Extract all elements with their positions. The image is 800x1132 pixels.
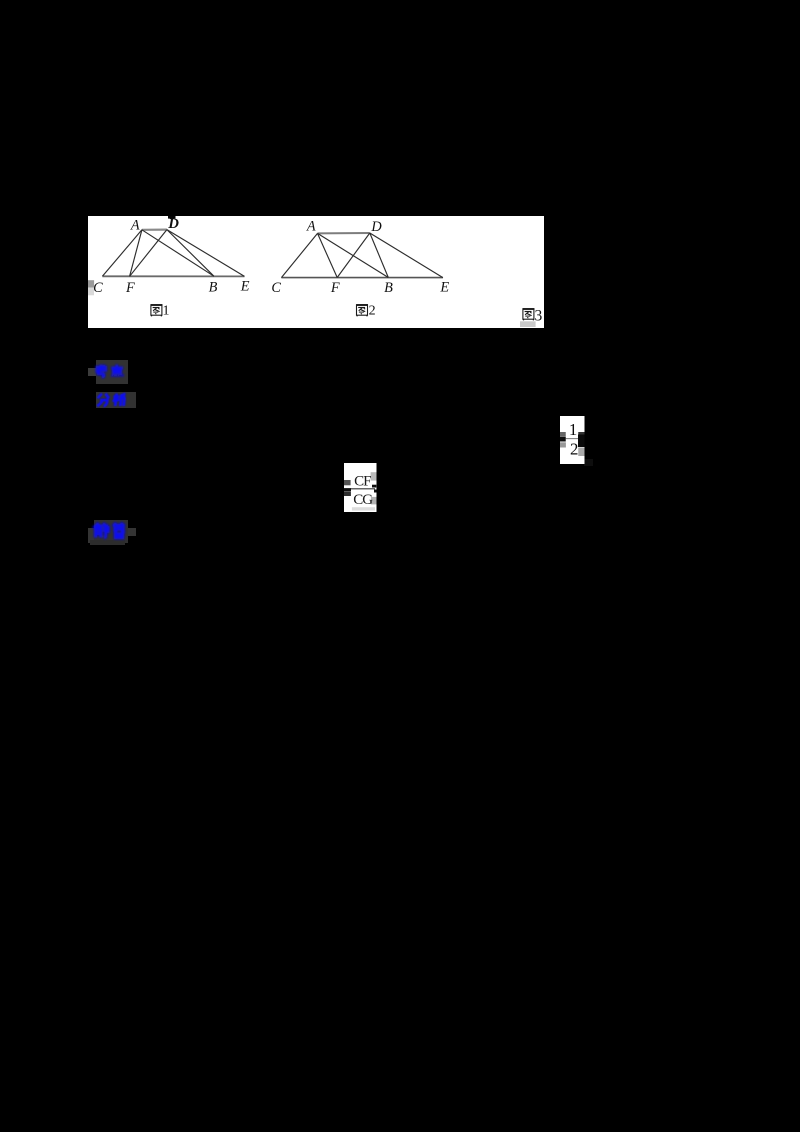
- svg-text:2: 2: [570, 439, 578, 458]
- svg-text:B: B: [209, 279, 218, 295]
- svg-text:A: A: [130, 218, 140, 234]
- svg-text:F: F: [125, 280, 135, 296]
- svg-text:2: 2: [369, 304, 376, 319]
- svg-text:CG: CG: [353, 492, 373, 508]
- svg-text:D: D: [370, 219, 382, 235]
- svg-text:1: 1: [569, 420, 577, 439]
- svg-text:E: E: [240, 279, 250, 295]
- svg-text:E: E: [439, 279, 449, 295]
- svg-text:1: 1: [163, 304, 170, 319]
- svg-text:C: C: [93, 280, 103, 296]
- svg-text:A: A: [306, 219, 316, 235]
- svg-text:3: 3: [535, 308, 543, 325]
- svg-text:C: C: [271, 280, 281, 296]
- svg-text:CF: CF: [354, 473, 371, 489]
- svg-text:F: F: [330, 280, 340, 296]
- svg-text:B: B: [384, 280, 393, 296]
